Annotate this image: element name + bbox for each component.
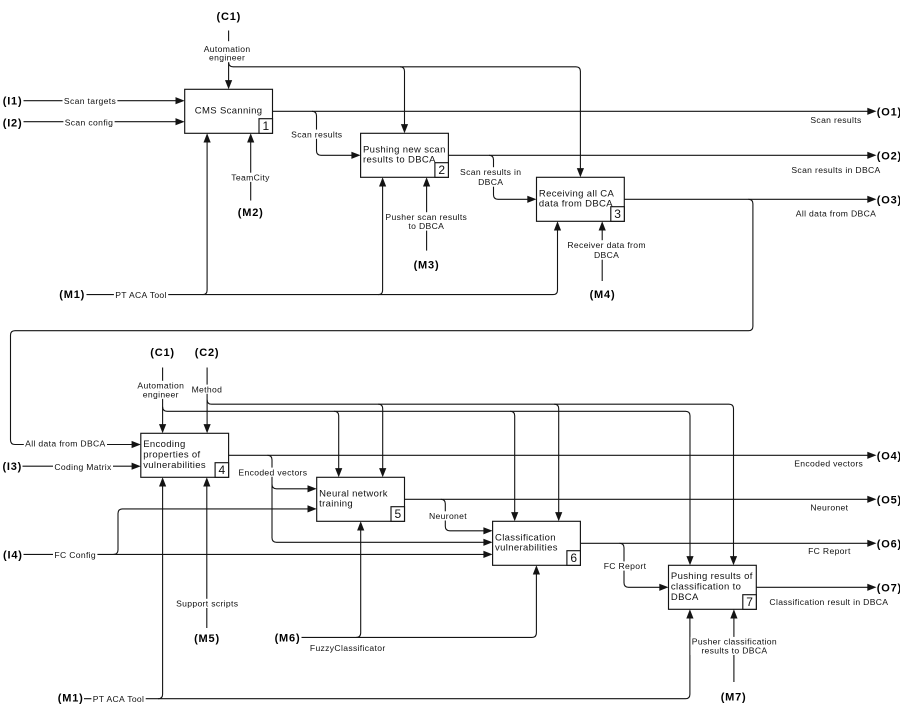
arrowhead M6 into box6 bottom <box>533 565 540 574</box>
svg-text:(C2): (C2) <box>195 347 220 359</box>
arrowhead M3 into box2 bottom <box>423 177 430 186</box>
arrowhead C1 into box7 top <box>686 556 693 565</box>
wire C1 control stub (bottom) <box>162 368 164 431</box>
wire FC Config fork up into box5 <box>114 509 314 555</box>
wire C1 control fork down to box6 top <box>510 411 515 518</box>
svg-text:Neuronet: Neuronet <box>810 503 848 513</box>
arrowhead O1 <box>867 108 876 115</box>
svg-text:(M6): (M6) <box>275 632 301 644</box>
svg-text:2: 2 <box>438 163 445 177</box>
svg-text:3: 3 <box>614 207 621 221</box>
arrowhead FC Report into box7 <box>659 584 668 591</box>
svg-text:(M1): (M1) <box>59 289 85 301</box>
svg-text:(I2): (I2) <box>3 117 23 129</box>
label PT ACA Tool (bottom M1) <box>91 694 145 704</box>
svg-text:Support scripts: Support scripts <box>176 599 238 609</box>
label Receiver data from DBCA <box>566 240 647 260</box>
svg-text:results to DBCA: results to DBCA <box>701 646 767 656</box>
label TeamCity <box>230 172 271 182</box>
wire M2 TeamCity mechanism into box1 <box>250 137 252 201</box>
svg-text:Encoded vectors: Encoded vectors <box>794 459 863 469</box>
arrowhead I2 into box1 <box>176 118 185 125</box>
label FC Config <box>53 550 97 560</box>
wire C2 Method control branch right <box>207 400 733 562</box>
svg-text:(O2): (O2) <box>877 150 900 162</box>
svg-text:PT ACA Tool: PT ACA Tool <box>115 290 167 300</box>
svg-text:(M4): (M4) <box>590 289 616 301</box>
arrowhead I1 into box1 <box>176 97 185 104</box>
arrowhead M1 into box7 bottom <box>686 609 693 618</box>
svg-text:CMS Scanning: CMS Scanning <box>195 106 263 117</box>
wire box1 output to O1 <box>273 110 874 112</box>
activity box 2: Pushing new scan results to DBCA <box>361 133 449 177</box>
wire M4 Receiver data mechanism into box3 <box>601 225 603 282</box>
svg-text:5: 5 <box>394 507 401 521</box>
svg-text:(C1): (C1) <box>150 347 175 359</box>
svg-text:(I1): (I1) <box>3 96 23 108</box>
arrowhead I3 into box4 <box>132 463 141 470</box>
wire All data from DBCA feedback loop into box4 <box>11 199 753 444</box>
wire M1 PT ACA Tool mechanism (bottom) into box7 <box>84 613 690 699</box>
arrowhead C2 into box4 top <box>204 424 211 433</box>
svg-text:Receiver data from: Receiver data from <box>567 240 646 250</box>
svg-text:(I4): (I4) <box>3 549 23 561</box>
wire I3 Coding Matrix into box4 <box>23 465 138 467</box>
svg-text:FC Config: FC Config <box>54 550 96 560</box>
svg-text:DBCA: DBCA <box>478 177 503 187</box>
activity box 1: CMS Scanning <box>185 89 273 133</box>
svg-text:DBCA: DBCA <box>671 592 699 603</box>
wire control branch down to box2 top <box>400 67 405 130</box>
svg-text:Encoded vectors: Encoded vectors <box>238 467 307 477</box>
svg-text:Scan results: Scan results <box>291 129 342 139</box>
wire box6 output to O6 <box>580 542 873 544</box>
arrowhead C2 into box7 top <box>730 556 737 565</box>
label Neuronet (fork) <box>428 511 469 521</box>
svg-text:Scan results: Scan results <box>810 115 861 125</box>
arrowhead FC Config into box5 <box>308 505 317 512</box>
svg-text:FC Report: FC Report <box>808 546 851 556</box>
activity box 7: Pushing results of classification to DBCA <box>669 565 757 609</box>
label Automation engineer (top) <box>202 44 252 63</box>
svg-text:PT ACA Tool: PT ACA Tool <box>93 694 145 704</box>
activity box 3: Receiving all CA data from DBCA <box>537 177 625 221</box>
arrowhead O6 <box>867 540 876 547</box>
arrowhead O7 <box>867 584 876 591</box>
svg-text:(O4): (O4) <box>877 450 900 462</box>
wire C1 Automation engineer control branch right <box>163 407 690 562</box>
svg-text:to DBCA: to DBCA <box>408 221 444 231</box>
arrowhead All data from DBCA into box4 <box>132 441 141 448</box>
wire C1 control fork down to box5 top <box>334 411 339 474</box>
arrowhead M1 into box1 bottom <box>204 133 211 142</box>
svg-text:results to DBCA: results to DBCA <box>363 155 436 166</box>
label Classification result in DBCA (O7) <box>769 597 888 607</box>
wire M1 fork up into box2 bottom <box>378 181 383 295</box>
svg-text:(M5): (M5) <box>194 633 220 645</box>
arrowhead O5 <box>867 496 876 503</box>
svg-text:Neuronet: Neuronet <box>429 511 467 521</box>
activity box 5: Neural network training <box>317 477 405 521</box>
wire M5 Support scripts mechanism into box4 <box>206 481 208 629</box>
svg-text:FC Report: FC Report <box>604 561 647 571</box>
svg-text:vulnerabilities: vulnerabilities <box>143 460 206 471</box>
label Method <box>190 384 223 394</box>
wire box7 output to O7 <box>756 586 873 588</box>
label Scan config <box>63 117 114 127</box>
svg-text:Coding Matrix: Coding Matrix <box>54 462 112 472</box>
svg-text:(O3): (O3) <box>877 194 900 206</box>
wire Encoded vectors fork into box5 <box>272 484 314 489</box>
svg-text:All data from DBCA: All data from DBCA <box>796 209 876 219</box>
label PT ACA Tool (top M1) <box>114 290 168 300</box>
arrowhead Scan results into box2 <box>351 152 360 159</box>
wire Automation engineer control into box1 top <box>228 62 230 86</box>
arrowhead control into box3 top <box>577 168 584 177</box>
svg-text:(M3): (M3) <box>414 260 440 272</box>
svg-text:Scan config: Scan config <box>65 117 114 127</box>
arrowhead M1 into box4 bottom <box>159 477 166 486</box>
svg-text:TeamCity: TeamCity <box>231 172 270 182</box>
label Scan targets <box>63 96 118 106</box>
arrowhead M7 into box7 bottom <box>730 609 737 618</box>
arrowhead M5 into box4 bottom <box>203 477 210 486</box>
svg-text:All data from DBCA: All data from DBCA <box>25 438 105 448</box>
activity box 4: Encoding properties of vulnerabilities <box>141 433 229 477</box>
label All data from DBCA (into box4) <box>24 438 107 448</box>
label Automation engineer (bottom) <box>136 381 186 400</box>
arrowhead Neuronet into box6 <box>483 527 492 534</box>
wire M7 Pusher classification mechanism into box7 <box>733 613 735 683</box>
svg-text:(O6): (O6) <box>877 538 900 550</box>
arrowhead control into box1 top <box>225 80 232 89</box>
wire M1 fork up into box4 bottom <box>158 481 163 699</box>
arrowhead O3 <box>867 196 876 203</box>
label Encoded vectors (fork) <box>237 467 309 477</box>
wire M1 PT ACA Tool mechanism (top) <box>87 225 558 295</box>
arrowhead C1 into box5 top <box>335 468 342 477</box>
wire box2 output to O2 <box>448 154 873 156</box>
wire C2 control fork down to box6 top <box>554 404 559 518</box>
label FC Report (fork) <box>602 561 647 571</box>
wire C1 control stub (top) <box>228 31 230 42</box>
wire Scan results in DBCA fork into box3 <box>489 155 533 199</box>
svg-text:(M7): (M7) <box>721 692 747 704</box>
arrowhead C2 into box6 top <box>555 512 562 521</box>
wire M1 fork up into box1 bottom <box>203 137 208 295</box>
svg-text:4: 4 <box>219 463 226 477</box>
wire box4 output to O4 <box>229 454 874 456</box>
activity box 6: Classification vulnerabilities <box>493 521 581 565</box>
wire Automation engineer control branch right <box>229 62 581 174</box>
wire M3 Pusher scan results mechanism into box2 <box>426 181 428 251</box>
svg-text:training: training <box>319 499 353 510</box>
svg-text:FuzzyClassificator: FuzzyClassificator <box>310 643 386 653</box>
svg-text:engineer: engineer <box>209 53 245 63</box>
wire Encoded vectors fork down to box6 <box>268 455 490 542</box>
arrowhead O2 <box>867 152 876 159</box>
label Scan results in DBCA (O2) <box>791 165 880 175</box>
label FuzzyClassificator <box>310 643 386 653</box>
svg-text:engineer: engineer <box>143 389 179 399</box>
svg-text:(O5): (O5) <box>877 494 900 506</box>
svg-text:Method: Method <box>192 384 223 394</box>
svg-text:1: 1 <box>262 119 269 133</box>
wire Neuronet fork into box6 <box>441 499 490 531</box>
arrowhead Scan results in DBCA into box3 <box>527 196 536 203</box>
wire C2 control fork down to box5 top <box>378 404 383 474</box>
label FC Report (O6) <box>808 546 851 556</box>
arrowhead FC Config into box6 <box>483 551 492 558</box>
label Pusher scan results to DBCA <box>384 212 469 231</box>
wire I4 FC Config into box6 <box>24 553 490 555</box>
svg-text:(C1): (C1) <box>217 11 242 23</box>
svg-text:(M1): (M1) <box>58 693 84 705</box>
label Coding Matrix <box>53 462 113 472</box>
svg-text:7: 7 <box>746 595 753 609</box>
wire Scan results fork into box2 <box>312 111 357 155</box>
svg-text:Scan results in: Scan results in <box>460 167 521 177</box>
arrowhead M1 into box2 bottom <box>379 177 386 186</box>
wire I1 Scan targets into box1 <box>24 100 182 102</box>
wire M6 fork up into box5 bottom <box>356 525 361 638</box>
arrowhead M4 into box3 bottom <box>599 221 606 230</box>
wire box3 output to O3 <box>624 198 873 200</box>
label All data from DBCA (O3) <box>796 209 876 219</box>
arrowhead O4 <box>867 452 876 459</box>
arrowhead Encoded vectors into box6 <box>483 539 492 546</box>
svg-text:(M2): (M2) <box>238 207 264 219</box>
svg-text:Scan targets: Scan targets <box>64 96 116 106</box>
arrowhead M6 into box5 bottom <box>357 521 364 530</box>
arrowhead C2 into box5 top <box>379 468 386 477</box>
wire C2 Method control into box4 top <box>206 368 208 431</box>
wire I2 Scan config into box1 <box>24 121 182 123</box>
arrowhead Encoded vectors into box5 <box>308 485 317 492</box>
label Scan results (fork) <box>290 129 344 139</box>
label Neuronet (O5) <box>810 503 848 513</box>
svg-text:(O7): (O7) <box>877 582 900 594</box>
arrowhead M2 into box1 bottom <box>247 133 254 142</box>
label Encoded vectors (O4) <box>794 459 863 469</box>
arrowhead C1 into box6 top <box>511 512 518 521</box>
svg-text:data from DBCA: data from DBCA <box>539 199 613 210</box>
label Support scripts <box>175 599 240 609</box>
arrowhead control into box2 top <box>401 124 408 133</box>
svg-text:DBCA: DBCA <box>594 250 619 260</box>
svg-text:Classification result in DBCA: Classification result in DBCA <box>769 597 888 607</box>
label Pusher classification results to DBCA <box>690 637 778 656</box>
svg-text:(I3): (I3) <box>2 461 22 473</box>
arrowhead M1 into box3 bottom <box>554 221 561 230</box>
svg-text:vulnerabilities: vulnerabilities <box>495 543 558 554</box>
svg-text:Scan results in DBCA: Scan results in DBCA <box>791 165 880 175</box>
label Scan results (O1) <box>810 115 861 125</box>
arrowhead C1 into box4 top <box>159 424 166 433</box>
wire FC Report fork into box7 <box>620 543 666 587</box>
svg-text:6: 6 <box>570 551 577 565</box>
wire box5 output to O5 <box>405 498 874 500</box>
label Scan results in DBCA (fork) <box>459 167 523 187</box>
svg-text:(O1): (O1) <box>877 106 900 118</box>
wire M6 FuzzyClassificator mechanism into box6 <box>302 569 537 638</box>
